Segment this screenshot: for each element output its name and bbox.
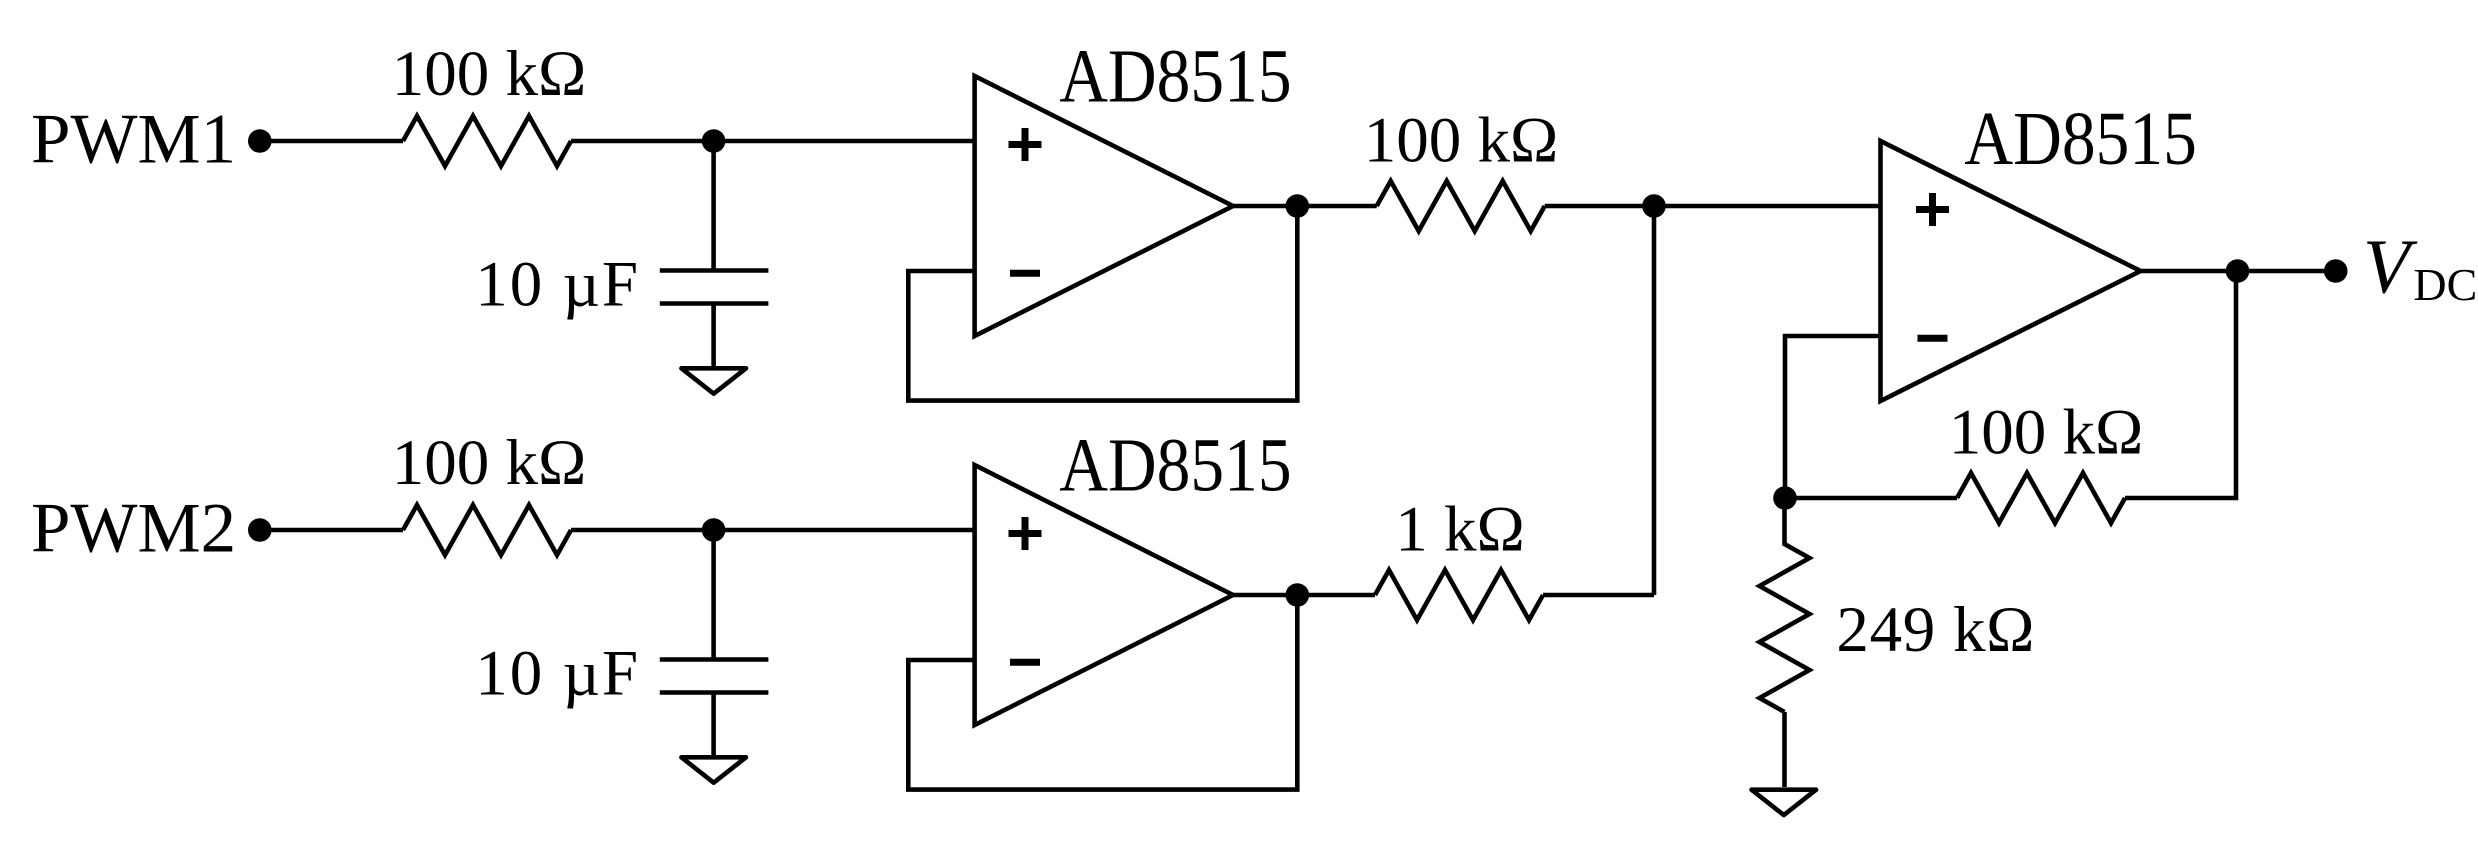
junction summing node B (1642, 194, 1666, 218)
junction node A (702, 129, 726, 153)
capacitor C1 10 uF (660, 271, 769, 304)
resistor R6 100 k (403, 505, 571, 555)
wire U2 inverting input feedback loop (908, 595, 1297, 790)
resistor R3 1 k (1375, 570, 1543, 620)
wire R3 to node B column (1543, 593, 1654, 598)
wire C1 to ground (711, 304, 716, 367)
wire U2 output (1233, 593, 1375, 598)
wire R1 to U1 +in through node A (571, 139, 975, 144)
op-amp U1 triangle (975, 76, 1233, 336)
wire R2 to U3 +in through summing node B (1545, 204, 1881, 209)
wire U1 output (1233, 204, 1377, 209)
svg-text:AD8515: AD8515 (1964, 96, 2196, 181)
terminal PWM2 (248, 518, 272, 542)
svg-text:AD8515: AD8515 (1059, 423, 1291, 508)
wire node C to R4 (1785, 496, 1957, 501)
op-amp U3 noninverting input symbol (1916, 193, 1949, 226)
wire node A down to C1 (711, 141, 716, 271)
svg-text:PWM2: PWM2 (31, 490, 236, 568)
capacitor C2 10 uF (660, 660, 769, 693)
op-amp U1 noninverting input symbol (1009, 128, 1042, 161)
svg-text:249 kΩ: 249 kΩ (1836, 594, 2035, 666)
wire R5 to ground (1782, 712, 1787, 787)
op-amp U2 inverting input symbol (1010, 659, 1040, 666)
wire C2 to ground (711, 693, 716, 756)
resistor R5 249 k (1760, 498, 1810, 712)
op-amp U3 inverting input symbol (1918, 335, 1948, 342)
junction node D (702, 518, 726, 542)
op-amp U3 triangle (1881, 141, 2141, 401)
ground C1 (681, 368, 746, 393)
wire U3 inverting input (1785, 336, 1881, 498)
svg-text:AD8515: AD8515 (1059, 34, 1291, 119)
svg-text:PWM1: PWM1 (31, 101, 236, 179)
wire U1 inverting input feedback loop (908, 206, 1297, 401)
junction U2 output node (1286, 583, 1310, 607)
svg-text:100 kΩ: 100 kΩ (1364, 105, 1559, 177)
svg-text:DC: DC (2413, 259, 2477, 310)
label output V_DC (2363, 224, 2477, 311)
resistor R4 100 k (1957, 473, 2125, 523)
op-amp U2 triangle (975, 465, 1233, 725)
ground C2 (681, 757, 746, 782)
op-amp U2 noninverting input symbol (1009, 517, 1042, 550)
svg-text:100 kΩ: 100 kΩ (392, 38, 587, 110)
terminal V_DC (2324, 259, 2348, 283)
svg-text:100 kΩ: 100 kΩ (392, 427, 587, 499)
wire node B down to R3 row (1652, 206, 1657, 595)
svg-text:V: V (2363, 224, 2418, 310)
svg-text:10 µF: 10 µF (475, 638, 640, 710)
wire PWM1 to R1 (260, 139, 403, 144)
resistor R1 100 k (403, 116, 571, 166)
op-amp U1 inverting input symbol (1010, 270, 1040, 277)
junction U1 output node (1286, 194, 1310, 218)
ground R5 (1752, 790, 1817, 815)
terminal PWM1 (248, 129, 272, 153)
wire R6 to U2 +in through node D (571, 528, 975, 533)
wire U3 output (2141, 269, 2336, 274)
svg-text:100 kΩ: 100 kΩ (1949, 397, 2144, 469)
wire node D down to C2 (711, 530, 716, 660)
svg-text:1 kΩ: 1 kΩ (1395, 494, 1525, 566)
junction feedback node C (1773, 486, 1797, 510)
junction U3 output node (2226, 259, 2250, 283)
wire R4 to output column (2125, 271, 2236, 498)
resistor R2 100 k (1377, 181, 1545, 231)
svg-text:10 µF: 10 µF (475, 249, 640, 321)
wire PWM2 to R6 (260, 528, 403, 533)
